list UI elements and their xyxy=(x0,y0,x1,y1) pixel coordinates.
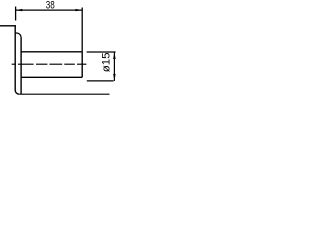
dim 38 left extension line xyxy=(15,7,17,21)
boss right edge xyxy=(20,38,22,95)
dim 38 dimension line xyxy=(16,9,83,11)
flange right edge with bottom fillet xyxy=(15,25,19,94)
flange top edge xyxy=(0,25,16,27)
svg-text:ø15: ø15 xyxy=(100,52,112,72)
svg-text:38: 38 xyxy=(46,0,55,11)
dim ø15 top arrow xyxy=(113,52,116,59)
dim ø15 top extension line xyxy=(87,51,116,53)
dim ø15 dimension line xyxy=(113,52,115,81)
dim 38 left arrow xyxy=(16,9,23,11)
boss top rounded corner xyxy=(15,33,21,38)
shaft top edge xyxy=(21,51,82,53)
shaft bottom edge xyxy=(21,76,82,78)
dim ø15 bottom arrow xyxy=(113,74,116,81)
boss bottom edge extension line xyxy=(19,93,109,95)
dim 38 right arrow xyxy=(76,9,83,11)
centerline xyxy=(12,63,87,65)
dim ø15 bottom extension line xyxy=(87,80,114,82)
shaft right edge xyxy=(81,52,83,78)
dim 38 right extension line xyxy=(81,8,83,52)
